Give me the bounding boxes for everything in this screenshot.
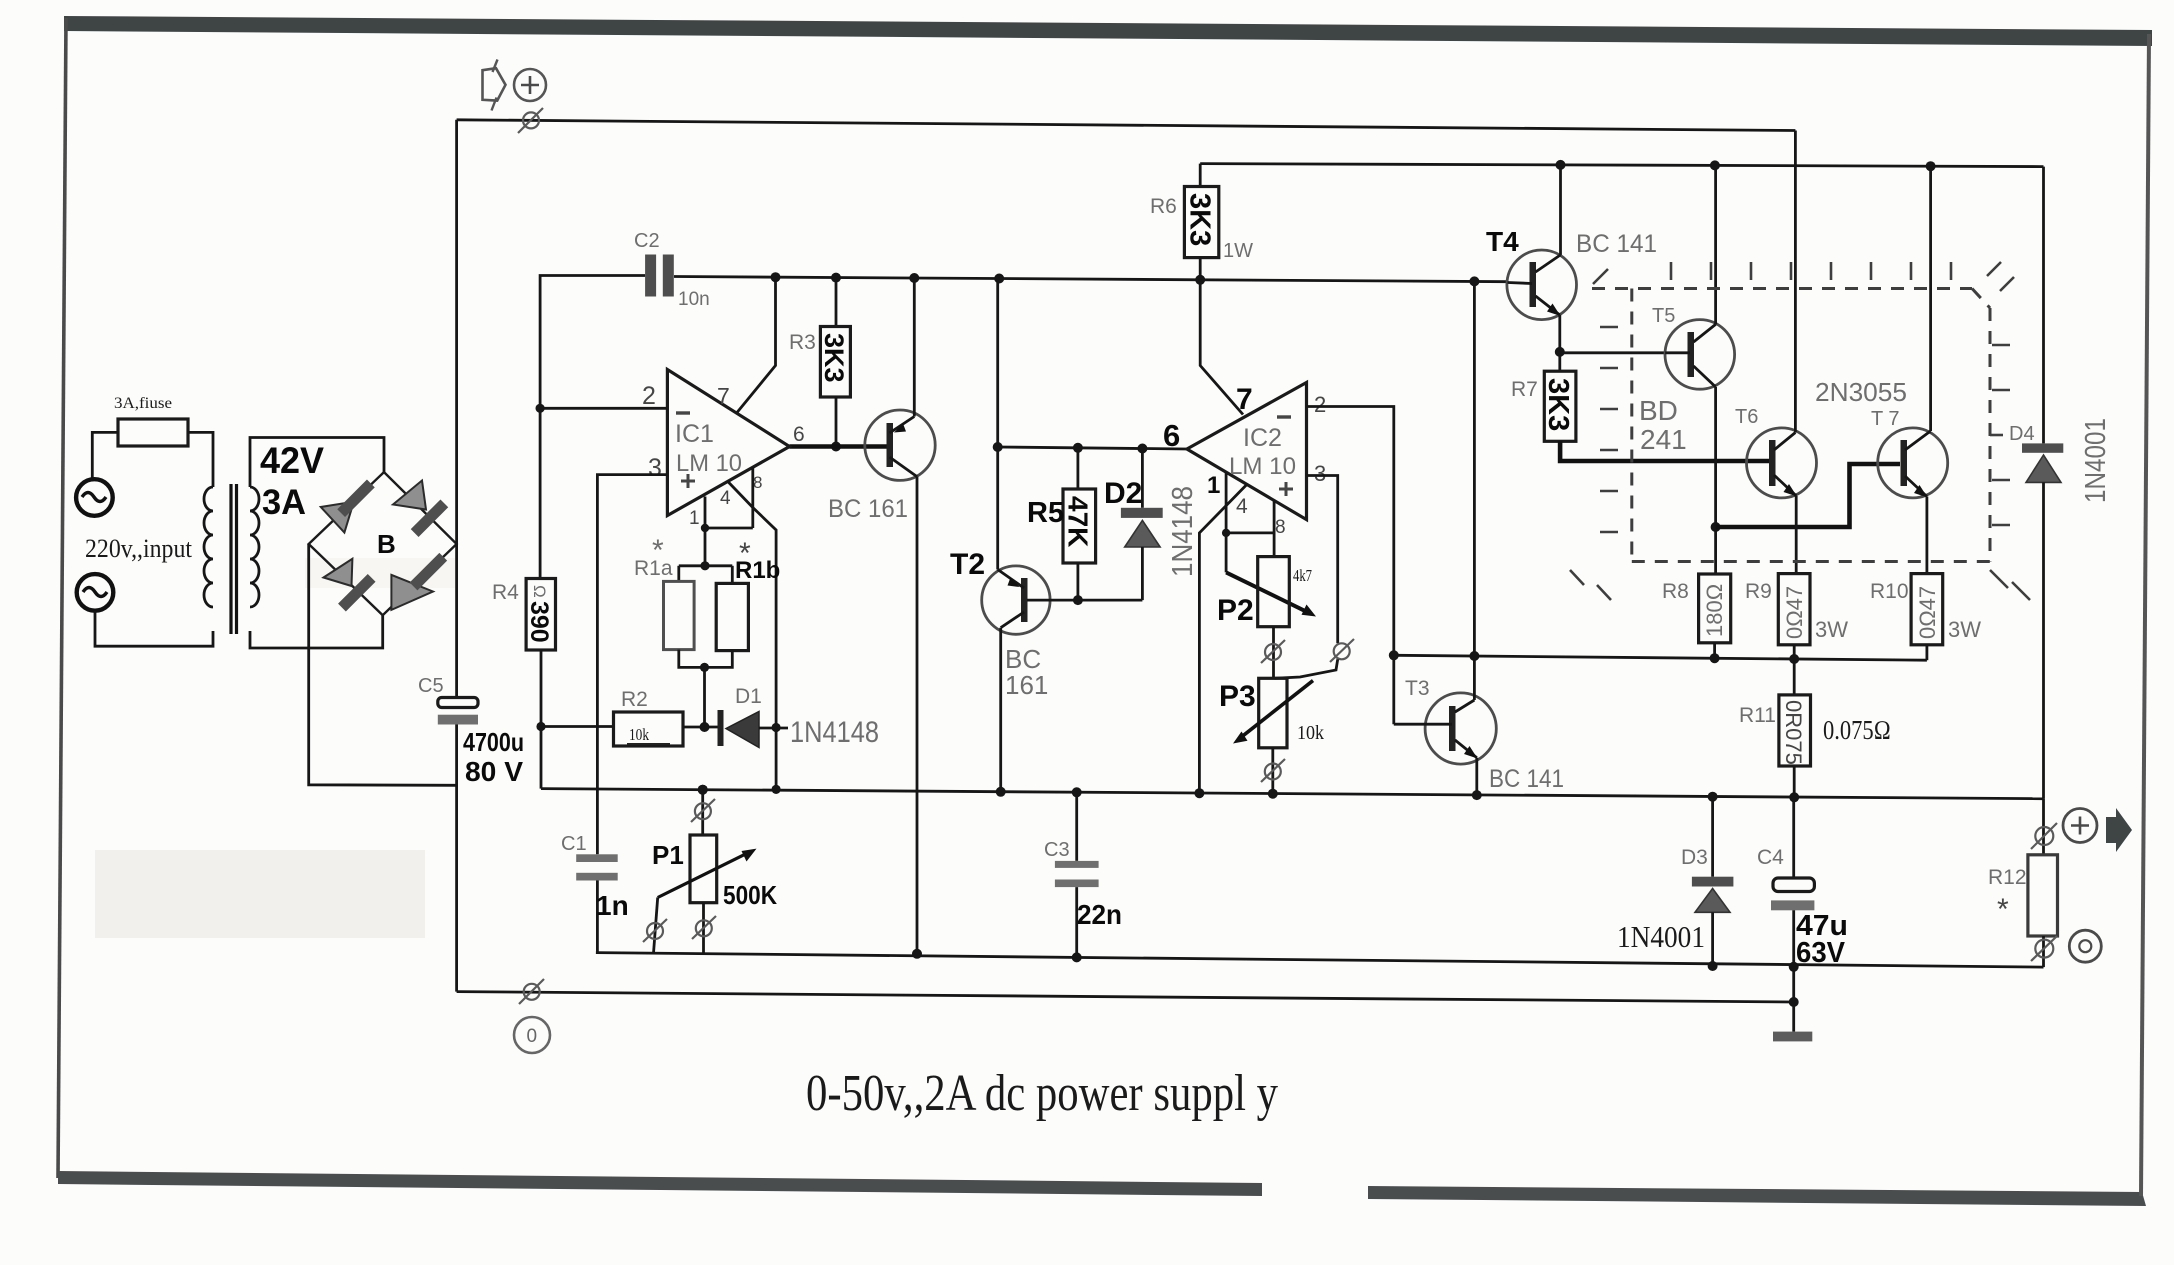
svg-text:8: 8	[753, 473, 762, 492]
wire fuse left lead	[92, 432, 118, 479]
wire IC2 pin7 link	[1200, 280, 1243, 415]
wire AC bottom to transformer	[95, 611, 213, 647]
op-amp IC2 LM10	[1187, 383, 1307, 520]
terminal + top left circle	[514, 69, 546, 101]
svg-text:0Ω47: 0Ω47	[1915, 586, 1940, 639]
wire IC2 pin6 line	[998, 447, 1187, 449]
resistor R8 180	[1699, 574, 1731, 643]
svg-text:*: *	[1997, 893, 2009, 926]
svg-text:D2: D2	[1104, 477, 1142, 510]
wire pin4/8 down to output rail	[753, 508, 776, 789]
svg-text:1N4001: 1N4001	[2080, 418, 2112, 503]
svg-text:BC 161: BC 161	[828, 495, 908, 523]
wire bridge plus vertical (raw + riser)	[455, 120, 458, 698]
bridge diode top-right	[393, 481, 426, 510]
svg-text:1n: 1n	[596, 890, 629, 921]
resistor R1b	[731, 566, 734, 584]
svg-text:6: 6	[793, 423, 805, 446]
svg-text:3W: 3W	[1815, 617, 1848, 642]
diode D1 1N4148	[683, 726, 720, 729]
AC source G2	[77, 574, 114, 611]
resistor R2 10k	[541, 725, 614, 728]
potentiometer P2 4k7	[1258, 557, 1290, 627]
resistor R6 3K3 1W	[1199, 164, 1202, 187]
svg-text:7: 7	[717, 383, 730, 409]
phi chassis mark top left	[518, 108, 543, 133]
svg-text:P2: P2	[1217, 594, 1254, 627]
wire pin1-pin8 bracket	[1226, 532, 1274, 535]
svg-text:47K: 47K	[1063, 496, 1094, 547]
wire raw + top rail	[457, 120, 1796, 131]
bridge diode bottom-left	[324, 559, 353, 586]
wire supply mid rail (C2 to T4 base)	[674, 277, 1508, 282]
svg-text:2: 2	[642, 382, 656, 410]
border frame right	[2141, 34, 2149, 1196]
resistor R9 0R47 3W	[1778, 574, 1810, 645]
svg-text:T 7: T 7	[1871, 408, 1900, 430]
svg-text:1: 1	[1207, 472, 1220, 499]
node T3 collector top	[1469, 276, 1479, 286]
svg-text:1N4148: 1N4148	[790, 716, 879, 749]
node C2/pin7	[771, 272, 781, 282]
output block arrow	[2106, 808, 2132, 852]
svg-text:R11: R11	[1739, 704, 1776, 727]
border frame top	[64, 16, 2152, 46]
wire R1 node to R2/D1	[703, 667, 706, 727]
output rail node dots	[698, 785, 708, 795]
svg-text:4: 4	[720, 488, 731, 509]
transistor T7 2N3055	[1878, 428, 1948, 498]
wire 0V bottom rail	[457, 992, 1794, 1002]
svg-text:1W: 1W	[1223, 240, 1253, 262]
svg-text:161: 161	[1005, 670, 1048, 700]
svg-text:BC 141: BC 141	[1576, 230, 1657, 258]
wire IC2 pin3	[1307, 476, 1338, 644]
svg-text:C1: C1	[561, 833, 587, 855]
svg-text:IC2: IC2	[1243, 424, 1282, 452]
wire pin4-8 bracket	[705, 527, 753, 530]
wire IC2 pin8	[1273, 501, 1276, 557]
wire IC2 pin1 to P2 wiper	[1225, 472, 1228, 572]
AC source G1	[76, 479, 113, 516]
svg-text:63V: 63V	[1796, 937, 1846, 969]
svg-text:4700u: 4700u	[463, 727, 524, 757]
svg-text:Ω: Ω	[530, 585, 549, 598]
svg-text:1N4148: 1N4148	[1167, 486, 1199, 577]
node IC2 supply riser	[994, 274, 1004, 284]
svg-text:R8: R8	[1662, 580, 1689, 603]
resistor R5 47K	[1077, 448, 1080, 489]
svg-text:T3: T3	[1405, 677, 1430, 700]
capacitor C2	[645, 255, 656, 297]
transistor T6 2N3055	[1747, 428, 1817, 498]
svg-text:180Ω: 180Ω	[1702, 584, 1727, 637]
svg-text:R10: R10	[1870, 580, 1909, 603]
capacitor C1	[576, 854, 618, 862]
svg-text:0Ω47: 0Ω47	[1782, 586, 1807, 639]
ground bar	[1773, 1032, 1812, 1042]
transformer TR1 secondary	[250, 487, 259, 607]
diode D2 1N4148	[1141, 449, 1144, 508]
wire C5 minus down to 0V rail	[455, 725, 458, 992]
svg-text:C2: C2	[634, 230, 660, 252]
svg-text:R3: R3	[789, 331, 816, 354]
wire secondary top to bridge	[250, 438, 384, 488]
transformer TR1 primary	[204, 487, 213, 607]
transistor T3 BC141	[1425, 693, 1496, 764]
wire IC2 supply riser	[996, 279, 999, 448]
svg-text:R4: R4	[492, 581, 519, 604]
svg-text:0: 0	[527, 1026, 538, 1047]
svg-text:3A: 3A	[262, 483, 306, 522]
svg-text:22n: 22n	[1077, 899, 1122, 930]
wire P2 bottom	[1272, 627, 1275, 679]
svg-text:BD: BD	[1639, 395, 1678, 426]
wire IC1 pin7 link	[737, 277, 776, 412]
transistor T1 BC161	[865, 410, 935, 480]
svg-text:10k: 10k	[1297, 722, 1324, 744]
wire C2 left lead / pin2 riser	[540, 276, 645, 579]
potentiometer P1 500K	[698, 785, 708, 795]
svg-text:R2: R2	[621, 688, 648, 711]
transformer core	[229, 484, 232, 634]
svg-text:390: 390	[525, 601, 553, 643]
heatsink hatch ticks corners	[1570, 570, 2030, 600]
wire T5 emitter to T7 base	[1716, 464, 1900, 527]
svg-text:R1b: R1b	[735, 557, 780, 584]
svg-text:C4: C4	[1757, 846, 1784, 869]
wire IC1 pin4	[728, 481, 753, 507]
svg-text:0.075Ω: 0.075Ω	[1823, 715, 1891, 745]
svg-text:IC1: IC1	[675, 420, 714, 448]
wire output + rail	[541, 789, 2044, 799]
transistor T2 BC161	[982, 566, 1050, 634]
wire IC2 pin4 to output rail	[1199, 485, 1246, 794]
scan smudge patches (decorative)	[95, 850, 425, 938]
svg-text:3K3: 3K3	[1542, 378, 1574, 431]
resistor R7 3K3	[1558, 352, 1561, 371]
heatsink hatch ticks right	[1987, 262, 2014, 525]
svg-text:2N3055: 2N3055	[1815, 377, 1907, 407]
wire IC1 pin1	[704, 497, 707, 566]
wire fuse right lead	[188, 432, 213, 487]
svg-text:3K3: 3K3	[819, 333, 849, 383]
svg-text:R12: R12	[1988, 866, 2027, 889]
svg-text:3: 3	[648, 454, 662, 482]
capacitor C3 22n	[1072, 787, 1082, 797]
svg-text:2: 2	[1314, 392, 1326, 417]
terminal 0 bottom left	[514, 1017, 550, 1053]
node T1 emitter	[909, 273, 919, 283]
svg-text:42V: 42V	[260, 440, 324, 481]
svg-text:D4: D4	[2009, 423, 2035, 445]
svg-text:500K: 500K	[723, 880, 777, 910]
capacitor C4 47u 63V	[1792, 797, 1795, 878]
svg-text:1N4001: 1N4001	[1617, 919, 1705, 954]
wire P1 bottom to 0V	[702, 903, 705, 954]
svg-text:0-50v,,2A dc power suppl y: 0-50v,,2A dc power suppl y	[806, 1065, 1278, 1122]
phi chassis mark bottom left	[519, 979, 544, 1004]
svg-text:R7: R7	[1511, 378, 1538, 401]
resistor R3	[835, 278, 838, 327]
wire T2 base line	[1027, 599, 1142, 602]
heatsink dashed outline	[1592, 287, 1972, 290]
wire secondary bottom to bridge	[250, 615, 383, 648]
terminal 0 output	[2069, 930, 2101, 962]
svg-text:T5: T5	[1652, 305, 1675, 327]
wire R3 bottom to pin6 line	[835, 397, 838, 447]
svg-text:R9: R9	[1745, 580, 1772, 603]
svg-text:C3: C3	[1044, 839, 1070, 861]
node R6 bottom	[1195, 275, 1205, 285]
bridge diode bottom-right	[391, 575, 433, 610]
capacitor C5	[438, 698, 478, 708]
resistor R10 0R47 3W	[1911, 574, 1943, 645]
svg-text:T2: T2	[950, 548, 985, 581]
wire T4 emitter to T5 base	[1560, 351, 1665, 354]
wire P3 bottom to output rail	[1271, 748, 1274, 794]
node R3 top	[831, 273, 841, 283]
svg-text:T4: T4	[1486, 226, 1519, 257]
diode D4 1N4001	[2042, 167, 2045, 444]
wire bridge minus to 0V link	[309, 544, 457, 785]
wire IC1 pin2	[540, 407, 667, 410]
bridge diode top-left	[321, 502, 354, 533]
svg-text:T6: T6	[1735, 406, 1758, 428]
wire IC1 output pin6	[790, 444, 890, 449]
terminal + top left arrow	[483, 68, 506, 100]
svg-text:R6: R6	[1150, 195, 1177, 218]
wire second supply rail	[1200, 164, 2043, 167]
wire R7 bottom to T6 base	[1560, 441, 1769, 461]
svg-text:220v,,input: 220v,,input	[85, 534, 193, 563]
svg-text:10k: 10k	[629, 725, 649, 744]
wire IC2 pin2 to sense rail	[1307, 407, 1394, 656]
heatsink hatch ticks top	[1593, 262, 1951, 284]
svg-text:3: 3	[1314, 461, 1326, 486]
heatsink hatch ticks left	[1600, 327, 1618, 532]
wire current sense rail	[1394, 655, 1927, 660]
wire output rail corner to + terminal	[2042, 799, 2045, 855]
svg-text:10n: 10n	[678, 289, 710, 310]
svg-text:C5: C5	[418, 675, 444, 697]
wire R4 bottom to output rail start	[540, 650, 543, 789]
svg-text:D3: D3	[1681, 846, 1708, 869]
svg-text:D1: D1	[735, 685, 762, 708]
svg-text:0R075: 0R075	[1781, 700, 1806, 765]
svg-text:R1a: R1a	[634, 557, 673, 580]
op-amp IC1 LM10	[667, 370, 789, 516]
svg-text:BC 141: BC 141	[1489, 765, 1564, 793]
svg-text:3W: 3W	[1948, 617, 1981, 642]
svg-text:8: 8	[1275, 517, 1286, 538]
svg-text:3A,fiuse: 3A,fiuse	[114, 395, 172, 412]
wire 0V return rail	[596, 953, 2044, 968]
svg-text:1: 1	[689, 508, 700, 529]
svg-text:P3: P3	[1219, 680, 1256, 713]
potentiometer P3 10k	[1259, 678, 1287, 748]
wire IC1 pin8	[751, 467, 754, 528]
wire IC1 pin3 to C1	[597, 475, 667, 855]
svg-text:241: 241	[1640, 424, 1687, 455]
svg-text:4: 4	[1236, 495, 1248, 518]
svg-text:LM 10: LM 10	[1229, 453, 1296, 480]
fuse F1 3A	[118, 419, 188, 446]
border frame bottom	[58, 1171, 1262, 1196]
bridge rectifier B diamond	[309, 472, 457, 615]
resistor R11 0R075	[1779, 695, 1811, 766]
svg-text:P1: P1	[652, 840, 684, 870]
svg-text:B: B	[377, 529, 396, 559]
svg-text:3K3: 3K3	[1184, 193, 1216, 246]
svg-text:4k7: 4k7	[1293, 566, 1312, 585]
diode D3 1N4001	[1708, 792, 1718, 802]
wire R1 bottom bracket	[679, 650, 733, 668]
svg-text:LM 10: LM 10	[676, 450, 742, 477]
svg-text:R5: R5	[1027, 497, 1064, 529]
transistor T4 BC141	[1507, 250, 1577, 320]
wire P1 wiper to 0V	[654, 898, 658, 954]
terminal + output	[2063, 809, 2097, 843]
svg-text:6: 6	[1163, 418, 1180, 453]
resistor R1a	[679, 564, 733, 567]
resistor R12	[2028, 855, 2058, 936]
transistor T5 BD241	[1665, 320, 1735, 390]
svg-text:80 V: 80 V	[465, 756, 523, 787]
border frame left	[58, 18, 66, 1178]
